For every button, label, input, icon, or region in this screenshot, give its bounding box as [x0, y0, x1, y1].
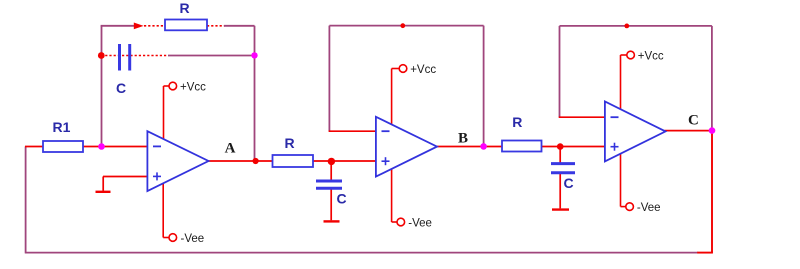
resistor R1 — [43, 141, 83, 152]
svg-text:C: C — [336, 191, 346, 207]
+Vcc terminal U2 — [392, 68, 400, 70]
wire feedback box1 right vertical — [254, 26, 256, 161]
wire capacitor C3 bottom lead — [559, 173, 561, 208]
wire capacitor C2 bottom lead — [330, 189, 332, 221]
wire feedback box1 top dashed red into R — [144, 25, 165, 27]
wire left vertical of loop — [25, 147, 27, 254]
wire right vertical of loop (red, from node C down) — [711, 131, 713, 253]
op-amp U3 — [605, 102, 666, 162]
+Vcc terminal U1 — [164, 85, 170, 87]
svg-text:+Vcc: +Vcc — [638, 50, 664, 62]
ground below C2 — [324, 220, 340, 222]
wire R3 to U3 noninverting input — [541, 146, 606, 148]
wire U1 output to node A and R2 — [208, 160, 273, 162]
svg-text:R: R — [179, 0, 189, 16]
op-amp U1 — [147, 131, 208, 191]
wire feedback box2 right vertical — [483, 26, 485, 147]
junction R2/C2 (red) — [328, 158, 335, 165]
wire R1 to U1 inverting input — [83, 146, 148, 148]
wire feedback box3 top — [560, 25, 712, 27]
junction R1/feedback (magenta) — [98, 143, 105, 150]
svg-text:A: A — [225, 140, 236, 156]
-Vee terminal U2 — [391, 167, 393, 222]
wire feedback box2 top — [329, 25, 483, 27]
svg-text:R: R — [284, 135, 294, 151]
junction C1-right (magenta) — [251, 52, 257, 58]
resistor R (stage 3) — [502, 141, 542, 152]
svg-text:-Vee: -Vee — [181, 233, 205, 245]
wire feedback box1 top right segment — [224, 25, 255, 27]
capacitor C (stage 3) — [551, 162, 575, 165]
-Vee terminal U1 — [162, 182, 164, 238]
junction C1-left (red) — [98, 52, 105, 59]
wire loop top-left into R1 — [25, 146, 44, 148]
node B junction (magenta) — [480, 143, 487, 150]
svg-text:C: C — [116, 80, 126, 96]
+Vcc terminal U3 — [621, 54, 627, 56]
svg-text:-Vee: -Vee — [637, 202, 661, 214]
wire U2 output to node B and R3 — [436, 146, 503, 148]
wire capacitor C2 top lead — [330, 162, 332, 181]
junction R3/C3 (red) — [557, 143, 564, 150]
svg-text:R1: R1 — [53, 119, 71, 135]
current arrow on box1 top — [134, 23, 144, 30]
wire feedback box1 left vertical — [101, 26, 103, 147]
wire op-amp U2 inverting input — [329, 130, 376, 132]
tick on box2 top — [400, 23, 405, 28]
-Vee terminal U3 — [620, 152, 622, 207]
wire U1 noninverting input — [103, 176, 148, 178]
svg-text:+Vcc: +Vcc — [180, 81, 206, 93]
wire feedback box1 top dashed red out of R — [207, 25, 225, 27]
wire capacitor C1 branch dashed red — [101, 55, 168, 57]
capacitor C (feedback) — [118, 44, 121, 71]
wire capacitor C3 top lead — [559, 147, 561, 163]
wire op-amp U3 inverting input — [559, 116, 606, 118]
wire R2 to U2 noninverting input — [313, 160, 376, 162]
node C junction (magenta) — [709, 127, 716, 134]
svg-text:C: C — [563, 175, 573, 191]
svg-text:-Vee: -Vee — [408, 217, 432, 229]
wire feedback box3 right vertical — [711, 26, 713, 131]
wire feedback box1 top left segment — [101, 25, 134, 27]
node A junction (red) — [253, 158, 259, 164]
capacitor C (stage 2) — [316, 180, 342, 183]
resistor R (stage 2) — [273, 155, 314, 167]
resistor R (feedback) — [165, 20, 207, 31]
wire capacitor C1 branch purple — [168, 55, 255, 57]
svg-text:R: R — [512, 114, 522, 130]
svg-text:+Vcc: +Vcc — [410, 64, 436, 76]
wire feedback box3 left vertical — [559, 26, 561, 117]
wire bottom-right red segment — [697, 252, 713, 254]
wire feedback box2 left vertical — [328, 26, 330, 132]
ground below C3 — [552, 208, 569, 210]
tick on box3 top — [624, 24, 629, 29]
svg-text:C: C — [688, 112, 699, 128]
ground at U1 noninverting input — [102, 177, 104, 191]
wire bottom loop (purple) — [25, 252, 698, 254]
op-amp U2 — [376, 117, 437, 177]
svg-text:B: B — [458, 131, 468, 147]
wire U3 output to node C — [665, 130, 713, 132]
